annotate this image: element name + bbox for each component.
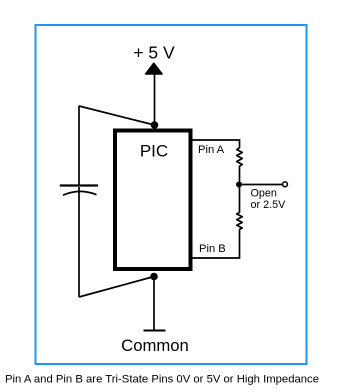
svg-text:+ 5 V: + 5 V [133,42,175,62]
wire R2 to Pin B [193,229,240,258]
pin label Pin B [199,243,226,255]
wire junction to R2 [239,185,241,213]
node +5V label [133,42,175,62]
wire R1 to junction [239,166,241,185]
power arrow +5V [146,63,162,74]
wire Pin A to R1 [193,140,240,148]
junction top node [151,121,159,129]
svg-text:Pin B: Pin B [199,243,226,255]
wire capacitor left top [78,106,80,186]
ground Common label [121,336,189,355]
wire +5V to PIC top [154,73,156,125]
resistor R1 [237,148,243,166]
svg-text:Pin A: Pin A [198,144,225,156]
IC U1 PIC box [115,131,191,270]
wire capacitor top diagonal [79,106,155,125]
pin label Pin A [198,144,225,156]
junction bottom node [150,273,158,281]
svg-text:Pin A and Pin B are Tri-State: Pin A and Pin B are Tri-State Pins 0V or… [5,373,319,385]
terminal open circle [283,182,288,187]
svg-text:PIC: PIC [140,141,168,160]
wire capacitor left bottom [78,187,80,297]
capacitor C1 top plate [60,184,98,186]
resistor R2 [237,213,243,230]
junction divider node [236,182,242,188]
svg-text:Common: Common [121,336,189,355]
wire PIC bottom to common [153,277,155,331]
ground Common bar [144,330,166,332]
svg-text:or 2.5V: or 2.5V [251,199,287,211]
wire capacitor bottom diagonal [79,277,154,298]
capacitor C1 bottom plate arc [63,191,97,195]
node label Open or 2.5V [251,187,287,211]
svg-text:Open: Open [251,187,277,199]
IC U1 PIC label [140,141,168,160]
wire junction to open terminal [239,184,282,186]
note caption [5,373,319,385]
